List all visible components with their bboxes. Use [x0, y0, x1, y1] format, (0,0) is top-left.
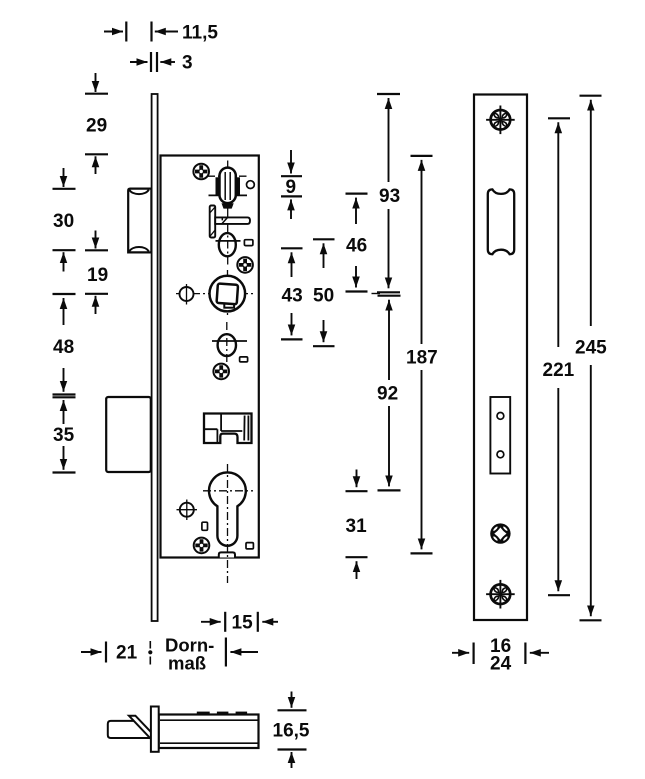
svg-text:43: 43 — [282, 286, 303, 307]
screw J — [213, 364, 229, 380]
body side inner bottom line — [160, 742, 258, 744]
follower inner slot lines — [224, 172, 226, 200]
T-lever arm — [215, 217, 250, 224]
screw P (top) — [486, 106, 515, 135]
rect D — [244, 240, 253, 246]
screw A — [193, 164, 209, 180]
oval H chord line — [212, 340, 247, 342]
body bottom notch — [219, 552, 235, 557]
svg-text:221: 221 — [543, 360, 575, 381]
screw Q (middle) — [490, 523, 510, 543]
svg-text:46: 46 — [346, 236, 367, 257]
circle L crosshair — [177, 500, 198, 521]
rect O — [246, 543, 253, 549]
faceplate strip (front view) — [152, 94, 158, 621]
dim 9 — [281, 150, 302, 219]
latch bolt bottom bevel arc — [129, 247, 149, 251]
svg-text:29: 29 — [86, 116, 107, 137]
svg-text:maß: maß — [168, 653, 206, 674]
dim 221 — [548, 118, 570, 595]
circle G vertical crosshair — [186, 284, 188, 305]
small circle B — [247, 181, 255, 189]
svg-text:92: 92 — [377, 384, 398, 405]
svg-text:93: 93 — [379, 186, 400, 207]
dim 3 — [130, 52, 175, 72]
svg-text:31: 31 — [346, 516, 368, 537]
latch cutout — [488, 189, 514, 254]
oval H — [218, 334, 236, 356]
latch bolt top bevel arc — [129, 190, 149, 195]
cylinder horizontal centerline — [203, 490, 253, 492]
dim 11,5 — [104, 22, 178, 42]
body side inner top line — [160, 719, 258, 721]
deadbolt slot cutout — [490, 397, 510, 474]
latch tip — [108, 721, 151, 738]
spindle follower circle — [210, 276, 246, 312]
dim 19 — [85, 231, 108, 315]
screw E — [237, 257, 253, 273]
spindle follower tab — [224, 302, 234, 308]
dim 93 — [377, 94, 400, 292]
dim 43 — [281, 248, 303, 339]
svg-text:50: 50 — [313, 286, 334, 307]
svg-text:21: 21 — [116, 643, 138, 664]
dim 31 — [346, 470, 368, 580]
lock body case — [161, 156, 259, 558]
svg-text:19: 19 — [87, 265, 108, 286]
svg-text:35: 35 — [53, 425, 75, 446]
euro cylinder hole — [209, 472, 246, 545]
oval C — [219, 233, 236, 256]
dim 15 — [201, 612, 278, 632]
dim 245 — [580, 96, 602, 621]
rect M — [202, 522, 208, 530]
faceplate bar (side view) — [151, 707, 159, 752]
dim 16,5 — [278, 692, 307, 769]
deadbolt tail inner lines — [204, 414, 248, 444]
svg-text:16,5: 16,5 — [273, 720, 310, 741]
svg-text:30: 30 — [53, 211, 74, 232]
dim 92 — [378, 296, 401, 491]
spindle square hole — [217, 284, 239, 305]
top edge dashes — [197, 712, 210, 715]
body (side view) — [159, 715, 259, 749]
dim 187 — [411, 156, 433, 554]
dim 30 — [53, 168, 76, 272]
svg-text:24: 24 — [490, 654, 512, 675]
deadbolt (front view) — [106, 397, 151, 472]
follower foot — [222, 203, 234, 208]
dim 46 — [346, 194, 381, 294]
spring bar right — [236, 177, 240, 195]
slot hole 2 — [497, 451, 504, 458]
oval H vertical centerline — [226, 322, 228, 373]
svg-text:187: 187 — [406, 348, 438, 369]
centerline horizontal at follower spring top — [207, 175, 247, 177]
slot hole 1 — [497, 413, 504, 420]
spring bar left — [216, 177, 220, 195]
svg-text:11,5: 11,5 — [182, 23, 218, 44]
cylinder vertical centerline — [227, 464, 229, 583]
svg-text:3: 3 — [182, 53, 193, 74]
dim 35 — [53, 397, 76, 472]
centerline vertical (latch follower axis) — [227, 161, 229, 267]
dim 48 — [53, 294, 76, 395]
latch bevel — [129, 716, 157, 739]
small circle L — [180, 503, 194, 517]
svg-text:48: 48 — [53, 337, 74, 358]
dim 29 — [85, 73, 108, 174]
follower crosshair vertical — [227, 270, 229, 318]
T-lever vertical bar — [210, 206, 216, 238]
svg-text:245: 245 — [575, 338, 607, 359]
follower crosshair horizontal — [176, 293, 253, 295]
dim 50 — [313, 239, 335, 346]
T-lever arm notch — [222, 217, 227, 223]
latch bolt (front view) — [128, 189, 151, 253]
svg-text:9: 9 — [286, 177, 297, 198]
spring seat line — [209, 194, 248, 196]
dim 21 / Dornmass — [81, 638, 258, 667]
latch follower stadium — [220, 168, 236, 204]
rect I — [240, 357, 248, 362]
small circle G — [180, 287, 194, 301]
deadbolt tail block outline — [204, 414, 252, 444]
screw N — [194, 538, 210, 554]
oval C chord line — [216, 240, 241, 242]
svg-text:15: 15 — [232, 613, 254, 634]
faceplate outline — [474, 95, 527, 621]
T-lever bar hatch — [210, 207, 215, 236]
dim 16/24 — [452, 643, 549, 665]
screw R (bottom) — [486, 580, 515, 609]
